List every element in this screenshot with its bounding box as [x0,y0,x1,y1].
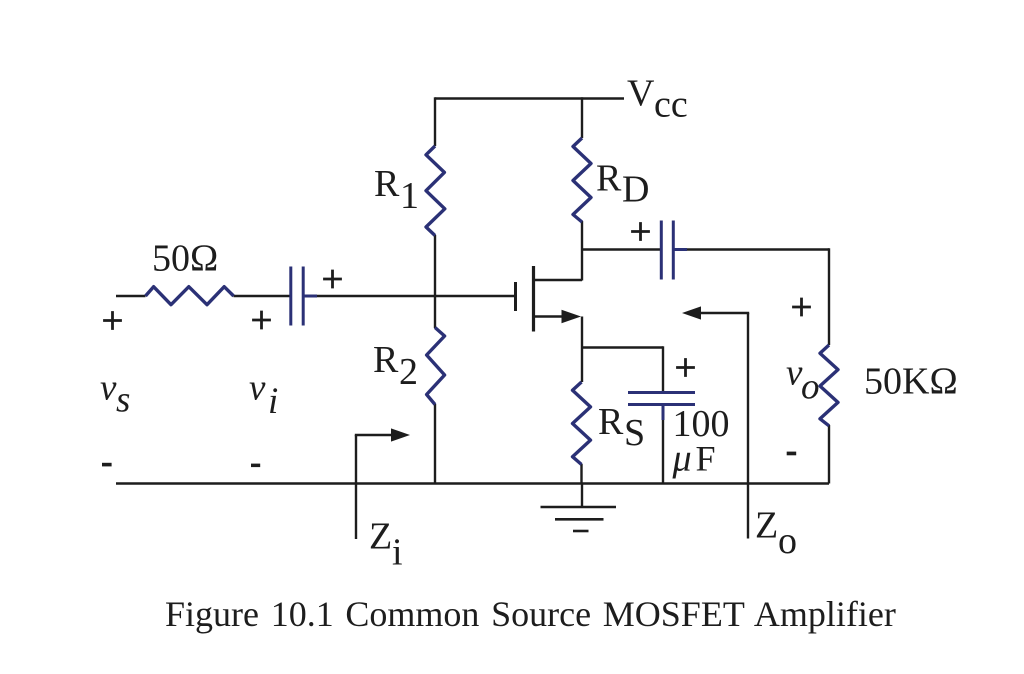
svg-text:S: S [624,412,645,454]
wire R1 top stub [434,97,436,146]
resistor R1 [426,146,445,236]
svg-text:R: R [374,163,400,205]
label plus input cap right [323,270,342,289]
wire Vcc drop to RD [581,97,583,138]
wire bypass cap bottom lead [662,405,664,484]
wire blue stub below bypass cap [662,405,665,421]
svg-text:Figure 10.1 Common Source MOSF: Figure 10.1 Common Source MOSFET Amplifi… [165,594,896,634]
wire bypass cap top lead [662,346,664,392]
ground bar 3 [573,530,589,533]
wire blue stub right of input cap [303,295,317,298]
svg-text:V: V [627,73,655,115]
arrowhead Zo [682,306,701,319]
wire 50ohm to input cap [234,295,292,297]
transistor Q1 gate bar [514,282,517,311]
wire R1 bottom to gate line [434,235,436,297]
transistor Q1 source arrow [562,310,582,323]
wire input source lead [116,295,146,297]
transistor Q1 channel bar [532,266,535,332]
wire ground stub [581,484,583,508]
wire Zi marker vertical [355,435,357,539]
arrowhead Zi [391,428,410,441]
wire R2 top stub [434,295,436,328]
label plus input source [103,311,122,330]
ground bar 2 [555,518,604,521]
resistor RS [573,382,591,465]
label plus bypass cap [676,358,695,377]
svg-text:D: D [622,169,649,211]
wire blue stub right of output cap [673,248,687,251]
label plus output cap [631,222,650,241]
svg-text:Z: Z [755,505,778,547]
label minus input source [102,463,112,467]
wire drain node to output cap [582,248,661,250]
capacitor output left plate [660,221,663,280]
svg-text:v: v [100,368,117,409]
svg-text:2: 2 [399,351,418,393]
wire bottom ground rail [116,482,829,484]
svg-text:1: 1 [400,175,419,217]
wire Zo marker horizontal [698,312,749,314]
wire 50K bottom to ground rail [828,425,830,484]
resistor 50 ohm source [146,287,234,305]
svg-text:o: o [801,367,820,408]
wire Zi marker horizontal [355,434,393,436]
capacitor input right plate [302,267,305,326]
label plus output load [792,298,811,317]
svg-text:v: v [249,368,266,409]
svg-text:i: i [392,532,403,574]
wire right drop to 50K load [828,248,830,345]
svg-text:μ: μ [672,438,692,480]
wire top rail Vcc [435,97,624,99]
svg-text:50Ω: 50Ω [152,238,218,280]
svg-text:i: i [268,381,278,422]
wire Zo marker vertical [747,313,749,539]
wire RD bottom to drain node [581,221,583,281]
wire source node to bypass cap [581,346,663,348]
wire MOSFET drain horizontal [534,279,583,281]
capacitor bypass top plate [628,391,695,394]
wire RS bottom to ground rail [580,464,582,484]
svg-text:R: R [373,339,399,381]
wire output cap to right corner [674,248,830,250]
label minus input cap [251,464,260,468]
capacitor input left plate [289,267,292,326]
svg-text:Z: Z [369,516,392,558]
wire MOSFET source vertical [581,317,583,383]
ground bar 1 [541,506,617,509]
svg-text:F: F [696,439,716,479]
svg-text:cc: cc [654,84,688,126]
capacitor bypass bottom plate [628,403,695,406]
resistor R2 [427,328,445,405]
wire input cap to gate [303,295,515,297]
resistor RD [573,138,591,222]
label plus input cap left [252,311,271,330]
capacitor output right plate [672,221,675,280]
svg-text:R: R [598,401,624,443]
svg-text:R: R [596,158,622,200]
svg-text:o: o [778,520,797,562]
wire MOSFET source horizontal [534,315,567,317]
wire R2 bottom to ground rail [434,404,436,484]
label minus output load [787,452,797,456]
resistor 50K load [820,345,838,426]
svg-text:s: s [116,380,130,421]
svg-text:50KΩ: 50KΩ [864,361,958,403]
